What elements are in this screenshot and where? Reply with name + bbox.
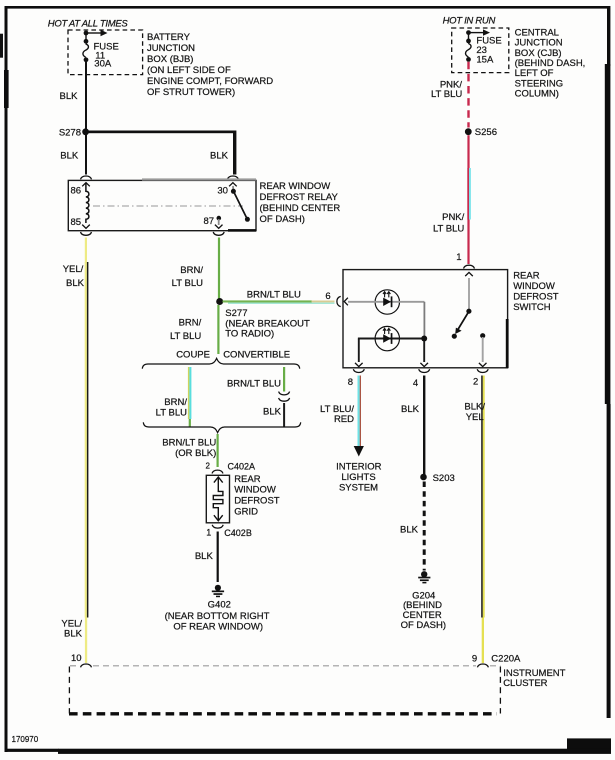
relay name text: [260, 181, 341, 225]
relay pin 87 contact: [215, 216, 223, 229]
bus node and arrow in BJB: [84, 30, 108, 36]
wire BLK/YEL pin 2 down: [481, 376, 484, 664]
svg-text:LIGHTS: LIGHTS: [341, 472, 375, 483]
svg-text:BLK/: BLK/: [464, 402, 485, 413]
relay connector pin 87 (below): [213, 232, 224, 235]
ground G204: [418, 571, 430, 583]
connector pin 6: [337, 296, 341, 306]
label INTERIOR LIGHTS SYSTEM: [336, 461, 382, 493]
svg-text:OF DASH): OF DASH): [401, 620, 446, 631]
defrost grid box: [206, 475, 229, 523]
wire BLK fuse to S278: [85, 62, 87, 130]
svg-text:C402B: C402B: [224, 528, 252, 538]
svg-text:LT BLU: LT BLU: [433, 224, 464, 235]
connector pin 9 / C220A: [477, 664, 488, 667]
connector pin 1: [464, 265, 475, 268]
relay pin 86 arrow: [82, 183, 90, 187]
relay connector pin 85 (below): [81, 232, 92, 235]
svg-text:1: 1: [456, 252, 461, 263]
svg-text:2: 2: [473, 376, 478, 387]
svg-text:8: 8: [348, 377, 353, 388]
svg-text:BRN/LT BLU: BRN/LT BLU: [162, 438, 216, 449]
ground G402: [212, 585, 224, 598]
relay box: [68, 178, 256, 231]
svg-text:BLK: BLK: [263, 407, 282, 418]
svg-text:170970: 170970: [12, 735, 39, 744]
svg-text:HOT IN RUN: HOT IN RUN: [443, 15, 496, 26]
svg-text:(ON LEFT SIDE OF: (ON LEFT SIDE OF: [147, 65, 231, 76]
label G402: [165, 600, 270, 633]
svg-text:OF REAR WINDOW): OF REAR WINDOW): [173, 622, 263, 633]
grid element: [213, 477, 223, 521]
fuse label FUSE 23 15A: [476, 36, 501, 66]
svg-text:REAR: REAR: [234, 474, 261, 485]
connector pin 10 cluster: [81, 664, 92, 667]
connector pin 2 (below): [477, 369, 488, 372]
svg-text:CONVERTIBLE: CONVERTIBLE: [223, 350, 290, 361]
svg-text:C402A: C402A: [228, 461, 256, 471]
cluster name text: [503, 668, 565, 689]
svg-text:85: 85: [71, 217, 82, 228]
wire BLK S278 to relay 86: [85, 132, 87, 175]
wire BLK dashed S203 to G204: [423, 482, 426, 571]
relay switch contact: [231, 186, 250, 222]
BJB name text: [147, 32, 273, 98]
svg-text:LT BLU: LT BLU: [170, 331, 201, 342]
label YEL/BLK: [63, 264, 85, 289]
svg-text:LT BLU: LT BLU: [172, 278, 203, 289]
wire BLK S278 to relay 30 (thick): [86, 131, 237, 175]
svg-text:1: 1: [206, 527, 211, 537]
connector pin 4 (below): [419, 369, 430, 372]
switch pin 1 leg: [468, 278, 470, 309]
svg-text:OF DASH): OF DASH): [260, 214, 305, 225]
svg-text:REAR WINDOW: REAR WINDOW: [260, 181, 331, 192]
switch lever: [452, 309, 472, 339]
fuse F11 30A: [83, 33, 89, 62]
svg-text:BLK: BLK: [64, 629, 83, 640]
switch name text: [513, 270, 559, 313]
svg-text:LT BLU: LT BLU: [156, 408, 187, 419]
central junction box (dashed): [452, 28, 509, 73]
wire BLK grid to G402: [217, 532, 219, 583]
svg-text:S203: S203: [433, 473, 455, 484]
svg-text:6: 6: [325, 291, 330, 302]
LED junction dot: [421, 336, 427, 342]
svg-text:(OR BLK): (OR BLK): [175, 448, 216, 459]
relay pin 85 arrow: [82, 225, 90, 229]
svg-text:2: 2: [206, 462, 211, 471]
svg-text:C220A: C220A: [491, 653, 521, 664]
svg-text:10: 10: [71, 653, 82, 664]
svg-text:S256: S256: [475, 127, 497, 138]
relay connector pin 86: [81, 176, 92, 179]
LED indicator 1: [348, 290, 424, 314]
svg-text:4: 4: [413, 378, 418, 389]
svg-text:15A: 15A: [476, 54, 494, 65]
svg-text:9: 9: [472, 653, 477, 664]
svg-text:S278: S278: [59, 127, 81, 138]
svg-text:DEFROST: DEFROST: [234, 496, 280, 507]
svg-text:COLUMN): COLUMN): [515, 89, 559, 100]
svg-text:ENGINE COMPT, FORWARD: ENGINE COMPT, FORWARD: [147, 76, 273, 87]
svg-text:G402: G402: [208, 600, 231, 611]
battery junction box (dashed): [68, 30, 143, 75]
LED1 to LED2 link: [423, 302, 425, 336]
connector C402A: [212, 470, 223, 473]
LED indicator 2: [358, 326, 424, 350]
fuse F23 15A: [466, 33, 472, 62]
label BRN/LT BLU coupe: [156, 397, 188, 419]
wire BLK pin 4 to S203: [423, 376, 425, 475]
svg-text:BLK: BLK: [60, 150, 79, 161]
svg-text:YEL: YEL: [466, 412, 484, 423]
wire PNK/LT BLU S256 to switch pin 1: [467, 135, 471, 264]
switch pin 2 contact: [479, 333, 487, 367]
svg-text:GRID: GRID: [234, 506, 258, 517]
wire BRN/LT BLU S277 to switch pin 6: [223, 300, 335, 304]
svg-text:30A: 30A: [94, 59, 112, 70]
svg-text:86: 86: [71, 185, 82, 196]
svg-text:COUPE: COUPE: [176, 350, 210, 361]
label G204: [401, 590, 446, 631]
svg-text:BOX (BJB): BOX (BJB): [147, 54, 193, 65]
wire LT BLU/RED pin 8 down: [358, 376, 362, 447]
svg-text:BLK: BLK: [195, 551, 214, 562]
fuse label FUSE 11 30A: [94, 42, 119, 70]
inline connector convertible: [279, 392, 290, 402]
svg-text:87: 87: [204, 216, 215, 227]
CJB name text: [515, 27, 586, 99]
svg-text:YEL/: YEL/: [63, 264, 84, 275]
svg-text:BLK: BLK: [210, 150, 229, 161]
wire BRN/LT BLU S277 down to brace: [217, 305, 219, 354]
relay connector pin 30: [227, 176, 238, 179]
svg-text:BRN/: BRN/: [180, 265, 203, 276]
svg-text:HOT AT ALL TIMES: HOT AT ALL TIMES: [48, 18, 129, 29]
splice S203: [420, 474, 427, 481]
pin 4 leg: [420, 341, 428, 367]
switch pin 1 arrow: [465, 272, 473, 276]
grid name text: [234, 474, 280, 517]
svg-text:(NEAR BOTTOM RIGHT: (NEAR BOTTOM RIGHT: [165, 611, 270, 622]
svg-text:BLK: BLK: [66, 278, 85, 289]
connector C402B: [212, 525, 223, 528]
svg-text:TO RADIO): TO RADIO): [225, 329, 274, 340]
switch pin 6 arrow: [344, 298, 348, 306]
svg-text:PNK/: PNK/: [442, 212, 465, 223]
arrow to interior lights: [354, 446, 364, 457]
wire PNK/LT BLU left label S277 lower: [170, 317, 202, 341]
bus node and arrow in CJB: [466, 29, 490, 35]
relay armature dash line: [93, 205, 243, 207]
svg-text:BLK: BLK: [60, 91, 79, 102]
svg-text:RED: RED: [334, 414, 354, 425]
svg-text:INTERIOR: INTERIOR: [336, 461, 382, 472]
svg-text:DEFROST RELAY: DEFROST RELAY: [260, 192, 339, 203]
svg-text:BLK: BLK: [400, 525, 419, 536]
wire BRN/LT BLU relay 87 to S277: [218, 238, 220, 300]
svg-text:BLK: BLK: [401, 404, 420, 415]
svg-text:LT BLU: LT BLU: [431, 89, 462, 100]
wire YEL/BLK relay 85 down: [85, 238, 89, 664]
instrument cluster box (dashed): [69, 666, 500, 714]
relay pin 30 arrow: [229, 183, 237, 187]
wire BLK convertible branch: [283, 403, 285, 427]
splice S277: [216, 298, 223, 305]
label LT BLU/RED: [320, 404, 354, 425]
wire BRN/LT BLU to grid: [217, 434, 219, 467]
switch box: [343, 270, 509, 368]
svg-text:30: 30: [217, 185, 228, 196]
label BRN/LT BLU (OR BLK): [162, 438, 216, 460]
svg-text:WINDOW: WINDOW: [234, 485, 276, 496]
svg-text:DEFROST: DEFROST: [513, 291, 559, 302]
svg-text:OF STRUT TOWER): OF STRUT TOWER): [147, 87, 235, 98]
brace join: [143, 422, 300, 432]
label BLK/YEL: [464, 402, 485, 423]
label PNK/LT BLU upper: [431, 79, 462, 100]
svg-text:CLUSTER: CLUSTER: [503, 678, 547, 689]
relay coil: [86, 184, 89, 224]
pin 8 leg: [355, 339, 363, 367]
svg-text:BRN/LT BLU: BRN/LT BLU: [247, 290, 301, 301]
svg-text:BRN/LT BLU: BRN/LT BLU: [227, 378, 281, 389]
svg-text:SYSTEM: SYSTEM: [339, 483, 378, 494]
wire PNK/LT BLU dashed CJB to S256: [467, 62, 469, 128]
svg-text:BATTERY: BATTERY: [147, 32, 191, 43]
label PNK/LT BLU lower: [433, 212, 465, 235]
svg-text:BRN/: BRN/: [179, 317, 202, 328]
brace split: [142, 358, 299, 368]
label BRN/LT BLU: [172, 265, 204, 289]
wire BRN/LT BLU convertible branch: [283, 367, 285, 392]
svg-text:BRN/: BRN/: [164, 397, 187, 408]
svg-text:(BEHIND CENTER: (BEHIND CENTER: [260, 203, 341, 214]
svg-text:SWITCH: SWITCH: [513, 302, 551, 313]
wire BRN/LT BLU coupe branch: [188, 367, 192, 428]
splice S256: [465, 128, 472, 135]
svg-text:JUNCTION: JUNCTION: [147, 43, 195, 54]
splice S278: [82, 128, 89, 135]
svg-text:WINDOW: WINDOW: [513, 281, 555, 292]
svg-text:REAR: REAR: [513, 270, 540, 281]
label YEL/BLK lower: [61, 619, 82, 640]
connector pin 8 (below): [353, 369, 364, 372]
